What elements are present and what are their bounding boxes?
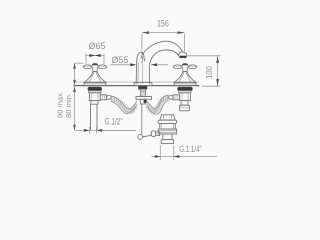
handle L base plate [84, 82, 106, 85]
deck top line (light) [73, 81, 199, 83]
spout outer arc [142, 41, 183, 55]
svg-text:100: 100 [204, 66, 214, 79]
handle R cross [173, 65, 197, 71]
valve L shank [91, 101, 98, 105]
dimension G.1/2 [83, 127, 136, 134]
hose right [147, 98, 169, 112]
spout threaded shank [140, 89, 145, 96]
valve L washer [89, 91, 101, 93]
drain flange [158, 120, 177, 123]
handle R skirt [174, 71, 196, 82]
handle L cross [83, 65, 107, 71]
svg-text:80 min.: 80 min. [64, 93, 73, 118]
spout base plate [134, 82, 152, 85]
drain body [160, 124, 175, 130]
valve R bottom nut [180, 105, 190, 111]
valve L hose nut [100, 95, 106, 100]
spout locknut below deck [138, 86, 147, 89]
svg-text:G.1.1/4”: G.1.1/4” [179, 144, 201, 155]
drain lever ball [151, 131, 155, 137]
drain tailpipe [163, 134, 172, 140]
handle R base plate [174, 82, 196, 85]
valve R shank [181, 101, 188, 106]
deck bottom line (dark) [74, 85, 200, 87]
horizontal rod [143, 135, 152, 137]
valve L locknut [88, 87, 102, 91]
dimension 90max/80min [75, 63, 137, 130]
supply pipe [90, 104, 92, 130]
hose left [111, 99, 137, 112]
svg-text:G.1/2”: G.1/2” [105, 117, 123, 128]
handle L skirt [84, 71, 106, 82]
svg-text:156: 156 [157, 19, 169, 30]
drain cap [160, 115, 175, 120]
spout tee lower block [140, 99, 145, 104]
svg-text:Ø65: Ø65 [89, 41, 106, 52]
dimension 156 [142, 33, 185, 59]
drain nut [158, 129, 176, 134]
dimension 100 [187, 56, 221, 86]
drain tail collar [161, 140, 173, 144]
spout base column [135, 61, 137, 84]
dimension G.1.1/4 [152, 145, 218, 160]
dimension Ø65 [86, 54, 104, 64]
valve R hose nut [173, 95, 179, 100]
spout base teardrop [137, 52, 145, 61]
rod joint [138, 135, 143, 140]
spout inner arc [150, 50, 179, 64]
valve L body [89, 93, 100, 101]
valve R washer [179, 91, 191, 93]
pop-up lift rod [141, 104, 143, 135]
svg-text:Ø55: Ø55 [112, 55, 129, 66]
valve R body [180, 93, 191, 101]
spout outlet [179, 52, 187, 58]
valve R locknut [178, 87, 193, 91]
spout tee flange [136, 97, 152, 100]
